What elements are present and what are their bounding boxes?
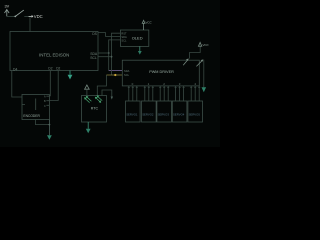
svg-text:INTEL EDISON: INTEL EDISON: [39, 53, 69, 58]
wire SCL to PWM (highlighted): [106, 74, 122, 76]
svg-text:SDA: SDA: [121, 35, 127, 39]
svg-text:D2: D2: [48, 67, 52, 71]
servo 1 wires: [129, 86, 137, 101]
svg-text:RTC: RTC: [91, 107, 99, 111]
svg-text:SERVO5: SERVO5: [189, 112, 201, 116]
rotary encoder: [22, 95, 49, 120]
ground below RTC: [86, 122, 91, 133]
svg-text:ENCODER: ENCODER: [23, 114, 40, 118]
wire SDA to PWM (highlighted): [109, 70, 123, 72]
RTC U3: [82, 95, 107, 122]
svg-text:C: C: [44, 105, 46, 108]
wire DS to OLED: [98, 33, 120, 37]
svg-text:SERVO3: SERVO3: [158, 112, 170, 116]
wire encoder A to D2: [48, 71, 51, 96]
battery down arrow: [202, 87, 207, 92]
V+ arrow 2 on PWM: [196, 59, 203, 66]
switch SW1: [14, 10, 29, 17]
svg-text:SERVO4: SERVO4: [173, 112, 185, 116]
node VDC label arrow: [29, 14, 43, 19]
svg-text:SCL: SCL: [90, 56, 97, 60]
wire encoder B to D3: [49, 71, 58, 101]
svg-text:DS: DS: [92, 32, 97, 36]
pin stub ticks on servo wires: [128, 86, 200, 88]
RTC aux stub to small arrow: [102, 90, 113, 100]
SDA bus vertical: [98, 40, 120, 71]
svg-text:SERVO2: SERVO2: [142, 112, 154, 116]
svg-text:SERVO1: SERVO1: [126, 112, 138, 116]
crystal arrow 2: [96, 96, 103, 102]
VCC power flag above OLED: [142, 20, 152, 30]
svg-text:D4: D4: [13, 67, 17, 71]
crystal arrow 1: [85, 97, 92, 103]
servo M5: [188, 101, 203, 122]
servo 2 wires: [145, 86, 153, 101]
V+ arrow 1 on PWM: [183, 59, 189, 66]
servo 3 wires: [160, 86, 168, 101]
svg-text:VCC: VCC: [145, 21, 152, 25]
wire OE pin down to battery arrow: [203, 60, 205, 88]
servo M1: [126, 101, 141, 122]
servo M2: [142, 101, 157, 122]
OLED display U2: [120, 30, 148, 46]
wire encoder bottom pin to ground net: [36, 120, 51, 126]
servo 4 wires: [176, 86, 184, 101]
PWM driver U4: [122, 60, 199, 86]
ground below OLED: [138, 46, 142, 54]
svg-text:SCL: SCL: [124, 73, 130, 77]
power flag triangle above RTC: [85, 85, 90, 96]
wire VDC to Edison top: [29, 17, 31, 31]
svg-text:3V: 3V: [5, 4, 10, 8]
svg-text:VDC: VDC: [34, 14, 43, 19]
svg-text:A: A: [44, 96, 46, 99]
wire battery to switch: [7, 15, 15, 17]
wire V+ pin to VCC flag: [190, 46, 201, 58]
servo 5 wires: [191, 86, 199, 101]
svg-text:PWM DRIVER: PWM DRIVER: [149, 70, 174, 74]
svg-text:SDA: SDA: [124, 69, 130, 73]
SCL bus vertical: [98, 33, 120, 75]
servo M3: [157, 101, 172, 122]
wire bus to RTC: [97, 75, 106, 96]
servo M4: [172, 101, 187, 122]
ground below encoder: [47, 120, 52, 140]
wire D4 to encoder: [12, 71, 22, 98]
svg-text:VCC: VCC: [202, 43, 209, 47]
battery 3V power flag: [5, 4, 10, 16]
svg-text:SCL: SCL: [121, 38, 127, 42]
svg-text:D2: D2: [56, 67, 60, 71]
VCC power flag triangle: [198, 42, 209, 47]
svg-text:OLED: OLED: [132, 35, 143, 40]
svg-text:B: B: [44, 100, 46, 103]
Intel Edison U1: [10, 32, 98, 72]
ground below Edison: [68, 71, 73, 80]
svg-text:RST: RST: [121, 31, 127, 35]
